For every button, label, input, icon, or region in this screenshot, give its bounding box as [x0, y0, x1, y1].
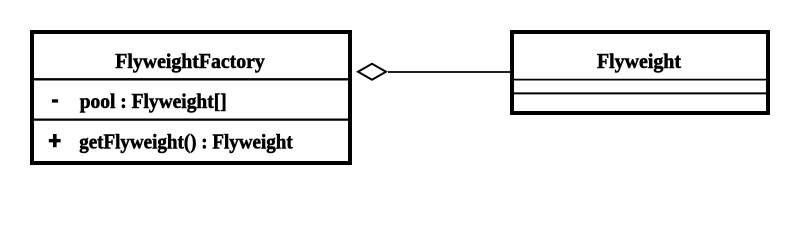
class FlyweightFactory box	[32, 32, 350, 163]
divider below attributes	[31, 118, 351, 120]
svg-text:pool : Flyweight[]: pool : Flyweight[]	[80, 89, 227, 113]
svg-text:Flyweight: Flyweight	[597, 49, 681, 73]
svg-text:FlyweightFactory: FlyweightFactory	[115, 49, 265, 73]
divider below Flyweight name	[511, 79, 769, 81]
class Flyweight box	[512, 32, 768, 113]
wire association line to Flyweight	[388, 71, 510, 73]
divider below empty attribute compartment	[511, 92, 769, 94]
aggregation diamond	[356, 63, 388, 81]
visibility marker + (public)	[49, 134, 61, 147]
svg-text:getFlyweight() : Flyweight: getFlyweight() : Flyweight	[79, 129, 293, 153]
visibility marker - (private)	[52, 99, 58, 102]
divider below FlyweightFactory name	[31, 78, 351, 80]
